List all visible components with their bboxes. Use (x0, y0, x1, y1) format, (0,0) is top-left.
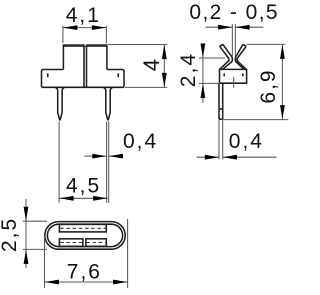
left leg centre extension line (58, 122, 60, 203)
front view: left bend tick (47, 73, 49, 77)
plan view: inner stadium outline (47, 224, 122, 246)
side view: left arm outer line (220, 46, 229, 69)
front view: right bend tick (117, 73, 119, 77)
dim 0,4 side: left extension line (218, 120, 220, 160)
dim 2,5: dimension line (25, 199, 27, 268)
dim 0,4 side: left line (197, 156, 219, 158)
dim 7,6: right arrow (113, 280, 127, 285)
dim 2,4: top extension line (199, 57, 225, 59)
dim 0,4 side: left arrow (205, 155, 219, 160)
dim 0,4 side: right line (223, 156, 277, 158)
side view: leg bottom edge (219, 118, 223, 120)
side view: body right bend tick (242, 73, 244, 76)
side view: leg tick (219, 108, 223, 110)
dim 0,2-0,5: right extension line (234, 24, 236, 56)
dim 0,2-0,5: left arrow (218, 25, 232, 30)
front view: block left edge (62, 45, 64, 70)
dim 4,1: dimension line (63, 27, 107, 29)
dim 4: bottom extension line (125, 86, 168, 88)
svg-text:0,2 - 0,5: 0,2 - 0,5 (189, 1, 279, 24)
plan view: bottom-right bar dashed centreline (86, 242, 105, 244)
dim 4,5: left arrow (59, 196, 73, 201)
dim 7,6: left arrow (45, 280, 59, 285)
side view: right arm tip cap (243, 44, 246, 46)
svg-text:7,6: 7,6 (67, 261, 102, 284)
dim 6,9: dimension line (281, 44, 283, 119)
side view: body left bend tick (223, 73, 225, 76)
dim 0,4 side: right arrow (223, 155, 237, 160)
dim 7,6: right extension line (127, 219, 129, 288)
dim 2,4: top arrow (outside, pointing down) (201, 44, 206, 58)
dim 6,9: bottom extension line (223, 119, 288, 121)
front view: wing top left line (42, 70, 64, 87)
front view: block right edge (106, 45, 108, 70)
dim 0,4 front: left line (84, 155, 106, 157)
dim 4: top extension line (108, 44, 168, 46)
svg-text:4,1: 4,1 (66, 4, 101, 27)
svg-text:2,5: 2,5 (0, 217, 21, 252)
dim 0,4 side: right extension line (222, 120, 224, 160)
dim 2,5: bottom arrow (outside, pointing up) (24, 250, 29, 264)
plan view: outer stadium outline (45, 222, 125, 250)
front view: wing bottom line (42, 86, 125, 88)
plan view: bottom-right bar rectangle (86, 239, 106, 247)
dim 4,1: left extension line (62, 26, 64, 43)
svg-text:0,4: 0,4 (123, 130, 158, 153)
dim 4,5: right arrow (93, 196, 107, 201)
side view: body rectangle (220, 69, 247, 83)
dim 4: bottom arrow (162, 73, 167, 87)
right leg left extension line (106, 122, 108, 203)
plan view: bottom-left bar rectangle (59, 239, 83, 247)
dim 0,4 front: left arrow (92, 154, 106, 159)
dim 4,1: left arrow (63, 25, 77, 30)
front view: right leg (104, 88, 113, 120)
front view: center seam left line (83, 45, 85, 87)
dim 2,4: bottom arrow (outside, pointing up) (201, 84, 206, 98)
svg-text:4,5: 4,5 (66, 174, 101, 197)
dim 2,4: dimension line (202, 44, 204, 104)
dim 0,4 front: right arrow (109, 154, 123, 159)
dim 0,2-0,5: right arrow (235, 25, 249, 30)
dim 0,4 front: right line (109, 155, 123, 157)
dim 2,5: top arrow (outside, pointing down) (24, 207, 29, 221)
dim 6,9: top arrow (280, 45, 285, 59)
svg-text:0,4: 0,4 (229, 130, 264, 153)
front view: block top thick edge (63, 44, 107, 47)
front view: wing top right line (107, 70, 124, 87)
dim 4: top arrow (162, 45, 167, 59)
svg-text:4: 4 (139, 59, 164, 71)
side view: left arm inner line (223, 44, 233, 69)
front view: left leg (56, 88, 65, 120)
dim 2,5: bottom extension line (23, 248, 47, 250)
svg-text:2,4: 2,4 (177, 52, 200, 87)
side view: body centre line (233, 77, 235, 88)
dim 0,2-0,5: left line (206, 26, 233, 28)
side view: leg left edge (218, 83, 220, 119)
dim 6,9: top extension line (247, 43, 286, 45)
front view: center seam right line (86, 45, 88, 87)
dim 6,9: bottom arrow (280, 105, 285, 119)
dim 4: dimension line (163, 45, 165, 88)
dim 7,6: dimension line (45, 281, 128, 283)
front view: seam notch in top edge (85, 44, 87, 46)
dim 4,5: dimension line (59, 197, 108, 199)
dim 4,1: right arrow (92, 25, 106, 30)
plan view: top bar dashed centreline (60, 227, 105, 229)
plan view: top bar rectangle (59, 224, 106, 232)
dim 0,2-0,5: left extension line (231, 24, 233, 56)
side view: right arm inner line (235, 44, 244, 69)
dim 2,4: bottom extension line (199, 82, 220, 84)
dim 0,2-0,5: right line (235, 26, 263, 28)
side view: leg right edge (222, 83, 224, 119)
side view: left arm tip cap (220, 44, 223, 46)
right leg right extension line (108, 122, 110, 203)
dim 4,1: right extension line (105, 26, 107, 43)
dim 2,5: top extension line (23, 220, 47, 222)
side view: right arm outer line (237, 46, 246, 69)
plan view: bottom-left bar dashed centreline (60, 242, 82, 244)
svg-text:6,9: 6,9 (257, 68, 280, 103)
dim 7,6: left extension line (44, 236, 46, 288)
